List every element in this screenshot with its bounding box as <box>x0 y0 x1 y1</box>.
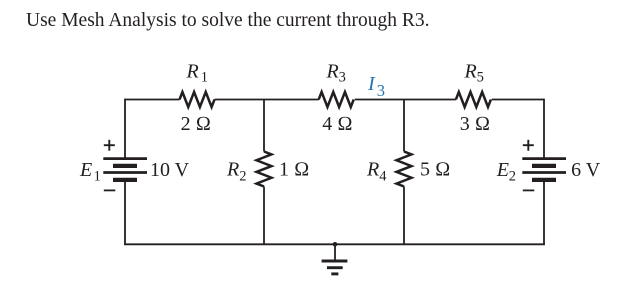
svg-text:4: 4 <box>379 168 387 184</box>
wire top-left segment <box>125 99 180 101</box>
svg-text:R: R <box>366 158 379 180</box>
battery E2 <box>522 159 566 180</box>
svg-text:R: R <box>226 158 239 180</box>
svg-text:1: 1 <box>201 70 208 86</box>
label E1 plus sign <box>104 140 115 151</box>
svg-text:10 V: 10 V <box>150 159 190 181</box>
svg-text:R: R <box>464 61 477 83</box>
svg-text:2: 2 <box>239 168 246 184</box>
svg-text:I: I <box>367 73 376 95</box>
svg-text:2 Ω: 2 Ω <box>181 113 211 135</box>
svg-text:6 V: 6 V <box>571 159 601 181</box>
svg-text:1: 1 <box>94 169 101 185</box>
battery E1 <box>103 159 147 180</box>
wire top-right segment <box>492 99 544 101</box>
resistor R1 <box>180 92 215 107</box>
svg-text:R: R <box>326 61 339 83</box>
svg-text:3: 3 <box>377 81 385 100</box>
wire ground stub <box>334 244 336 259</box>
node junction dot at ground <box>333 242 338 247</box>
resistor R4 <box>397 152 412 187</box>
wire R2 branch bottom stub <box>263 187 265 245</box>
svg-text:5: 5 <box>477 70 484 86</box>
wire R4 branch top stub <box>403 100 405 152</box>
svg-text:1 Ω: 1 Ω <box>279 158 309 180</box>
wire R4 branch bottom stub <box>403 187 405 245</box>
svg-text:3: 3 <box>339 70 346 86</box>
wire top middle segment (R3 to R5) <box>355 99 456 101</box>
label E2 plus sign <box>523 140 534 151</box>
svg-text:2: 2 <box>509 169 516 185</box>
resistor R5 <box>456 92 491 107</box>
svg-text:5 Ω: 5 Ω <box>420 158 450 180</box>
svg-text:E: E <box>496 159 509 181</box>
wire bottom rail <box>124 243 545 245</box>
wire left branch lower (from E1) <box>124 181 126 245</box>
svg-text:4 Ω: 4 Ω <box>322 113 352 135</box>
resistor R2 <box>257 152 272 187</box>
svg-text:R: R <box>186 61 199 83</box>
wire left branch upper (to E1) <box>124 99 126 158</box>
wire R2 branch top stub <box>263 100 265 152</box>
svg-text:Use Mesh Analysis to solve the: Use Mesh Analysis to solve the current t… <box>26 10 430 31</box>
wire top middle segment (R1 to R3) <box>215 99 319 101</box>
label E2 minus sign <box>523 189 535 191</box>
ground <box>322 261 348 274</box>
wire right branch lower (from E2) <box>543 181 545 245</box>
resistor R3 <box>319 92 354 107</box>
wire right branch upper (to E2) <box>543 99 545 158</box>
svg-text:3 Ω: 3 Ω <box>460 113 490 135</box>
label E1 minus sign <box>104 189 116 191</box>
svg-text:E: E <box>79 159 92 181</box>
